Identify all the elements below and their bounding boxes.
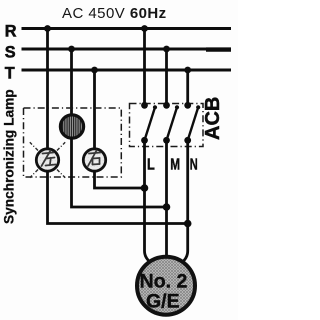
ACB box bbox=[130, 104, 204, 147]
node on S bus right bbox=[163, 46, 170, 53]
svg-text:M: M bbox=[170, 157, 180, 174]
svg-text:R: R bbox=[5, 22, 17, 40]
wire lamp L1 to node N bbox=[48, 172, 188, 224]
wire T to lamp L3 bbox=[93, 70, 96, 149]
bus T wire bbox=[22, 69, 232, 72]
wire R to switch 1 bbox=[143, 29, 146, 107]
wire switch3 to generator bbox=[178, 140, 188, 266]
node M junction bbox=[163, 203, 171, 211]
svg-text:No. 2: No. 2 bbox=[140, 271, 188, 293]
switch 3 pole bbox=[184, 102, 200, 144]
svg-text:T: T bbox=[5, 65, 15, 83]
lamp L1 (left kanji lamp) bbox=[36, 149, 58, 171]
lamp L2 dark lamp bbox=[60, 115, 83, 138]
wire R to lamp L1 bbox=[46, 29, 49, 149]
kanji right character bbox=[88, 151, 101, 167]
svg-text:AC 450V 60Hz: AC 450V 60Hz bbox=[62, 5, 167, 22]
wire switch2 to generator bbox=[165, 140, 168, 266]
svg-text:N: N bbox=[190, 157, 198, 174]
wire S to dark lamp L2 bbox=[70, 49, 73, 116]
wire lamp L3 to node L bbox=[95, 172, 145, 189]
svg-text:ACB: ACB bbox=[202, 97, 224, 140]
switch 1 pole bbox=[141, 102, 157, 144]
node L junction bbox=[141, 184, 149, 192]
synchronizing lamp box bbox=[24, 108, 122, 177]
svg-text:G/E: G/E bbox=[146, 291, 180, 313]
node N junction bbox=[184, 220, 192, 228]
kanji left character bbox=[42, 151, 56, 167]
bus S wire bbox=[22, 48, 232, 51]
wire switch1 to generator bbox=[145, 140, 156, 266]
svg-text:L: L bbox=[147, 157, 155, 174]
switch 2 pole bbox=[163, 102, 179, 144]
node on R bus bbox=[44, 25, 51, 32]
bus S wire overlap segment bbox=[206, 47, 231, 51]
svg-text:Synchronizing Lamp: Synchronizing Lamp bbox=[2, 89, 17, 224]
bus R wire bbox=[22, 27, 232, 30]
lamp L3 (right kanji lamp) bbox=[83, 149, 105, 171]
wire S to switch 2 bbox=[165, 49, 168, 106]
node on T bus right bbox=[184, 67, 191, 74]
wire lamp L2 to node M bbox=[72, 137, 167, 207]
lamp L1 rays bbox=[30, 142, 65, 177]
node on R bus right bbox=[141, 25, 148, 32]
node on T bus bbox=[91, 67, 98, 74]
generator G/E bbox=[137, 257, 195, 315]
node on S bus bbox=[68, 46, 75, 53]
svg-text:S: S bbox=[5, 44, 16, 62]
wire T to switch 3 bbox=[186, 70, 189, 106]
